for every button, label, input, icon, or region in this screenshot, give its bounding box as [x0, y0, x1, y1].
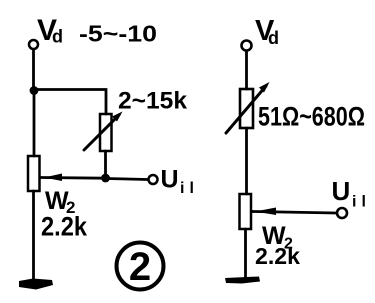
svg-text:il: il: [180, 180, 199, 197]
svg-text:U: U: [332, 176, 351, 206]
svg-text:-5~-10: -5~-10: [79, 21, 157, 47]
svg-text:2.2k: 2.2k: [255, 243, 301, 269]
svg-text:d: d: [268, 28, 279, 48]
svg-text:2.2k: 2.2k: [41, 212, 88, 242]
svg-text:51Ω~680Ω: 51Ω~680Ω: [258, 102, 365, 132]
svg-text:2~15k: 2~15k: [118, 88, 188, 115]
svg-text:U: U: [161, 166, 179, 194]
svg-text:il: il: [352, 194, 371, 211]
svg-text:2: 2: [129, 245, 151, 289]
svg-text:d: d: [52, 27, 63, 47]
